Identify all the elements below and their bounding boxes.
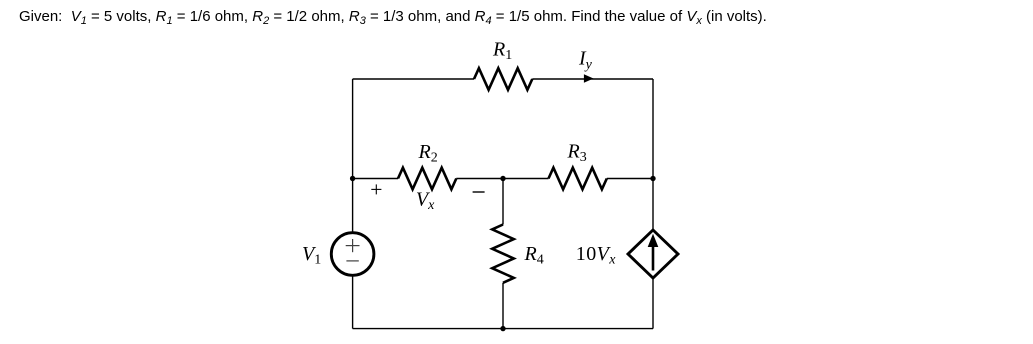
svg-text:Vx: Vx — [416, 189, 435, 214]
svg-text:10Vx: 10Vx — [576, 243, 616, 268]
wire right vertical (top to diamond) — [652, 79, 654, 230]
node dot center-middle — [500, 176, 505, 181]
resistor R4 — [492, 225, 514, 283]
svg-text:R4: R4 — [524, 243, 544, 268]
wire bottom horizontal — [353, 328, 653, 330]
problem statement text — [19, 8, 767, 26]
node dot bottom — [500, 326, 505, 331]
wire left vertical (top to V1) — [352, 79, 354, 233]
wire middle horizontal (left to R2) — [353, 178, 398, 180]
node dot left-middle — [350, 176, 355, 181]
voltage source V1 — [331, 233, 374, 276]
svg-text:R3: R3 — [567, 141, 587, 166]
arrow inside diamond — [652, 245, 655, 271]
dependent current source 10Vx diamond — [628, 230, 678, 278]
minus sign of Vx — [473, 191, 485, 193]
wire left vertical (V1 to bottom) — [352, 275, 354, 328]
svg-text:Iy: Iy — [578, 48, 593, 73]
wire middle (R2 to center node) — [456, 178, 503, 180]
wire center vertical (R4 to bottom) — [502, 283, 504, 329]
wire middle (center node to R3) — [503, 178, 549, 180]
wire top-left horizontal segment — [353, 78, 474, 80]
V1 plus sign — [346, 239, 360, 252]
wire right vertical (diamond to bottom) — [652, 278, 654, 329]
current arrow Iy — [584, 74, 594, 82]
svg-text:V1: V1 — [302, 243, 321, 268]
node dot right-middle — [650, 176, 655, 181]
svg-text:R1: R1 — [492, 39, 512, 64]
wire top-right horizontal segment — [532, 78, 653, 80]
wire middle (R3 to right) — [607, 178, 653, 180]
resistor R3 — [549, 168, 607, 190]
svg-text:R2: R2 — [418, 141, 438, 166]
resistor R2 — [398, 168, 456, 190]
wire center vertical (node to R4) — [502, 179, 504, 225]
resistor R1 — [474, 68, 532, 90]
plus sign of Vx — [371, 184, 381, 194]
V1 minus sign — [346, 260, 358, 262]
